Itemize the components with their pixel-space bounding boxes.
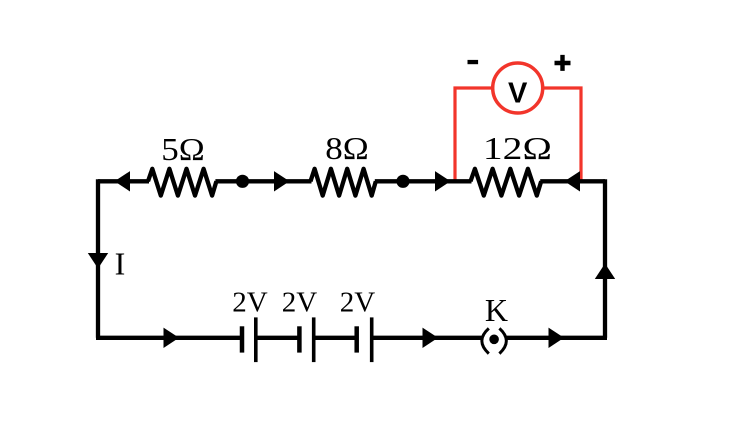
svg-text:2V: 2V [340,287,376,319]
svg-text:V: V [508,78,528,110]
voltmeter negative terminal label - [468,60,479,64]
battery B2 positive plate [312,317,316,362]
battery B1 negative plate [240,326,245,352]
current arrow on left branch pointing down [88,253,108,269]
wire: bottom segment between battery B1 and B2 [256,336,300,340]
wire: bottom segment between battery B2 and B3 [314,336,357,340]
svg-text:I: I [115,246,126,282]
wire: bottom segment from key K to right corner [507,336,608,340]
battery B2 negative plate [297,326,302,352]
current arrow between R1 and R2 pointing right [274,171,290,191]
key K plug symbol dot [489,335,499,345]
battery B3 negative plate [354,326,359,352]
current arrow on bottom-left wire pointing right [164,328,180,348]
current arrow between R2 and R3 pointing right [435,171,451,191]
wire: left vertical branch [96,179,100,338]
wire: top segment between R2 and R3 [375,179,472,183]
svg-text:2V: 2V [282,287,318,319]
junction node between R1 and R2 [236,175,249,188]
key K plug symbol right paren [499,328,506,353]
wire: top segment between R1 and R2 [215,179,311,183]
wire: voltmeter red lead right (node after R3 up to voltmeter) [541,88,581,181]
key K plug symbol left paren [482,328,489,353]
svg-text:12Ω: 12Ω [483,130,552,166]
resistor R2 8-ohm zigzag [311,169,376,196]
current arrow right of R3 pointing left [565,171,581,191]
junction node between R2 and R3 [396,175,409,188]
svg-text:2V: 2V [232,287,268,319]
battery B1 positive plate [254,317,258,362]
resistor R3 12-ohm zigzag [471,169,542,196]
wire: right vertical branch [603,179,607,338]
resistor R1 5-ohm zigzag [148,169,216,196]
current arrow before key K pointing right [423,328,439,348]
current arrow after key K pointing right [549,328,565,348]
svg-text:8Ω: 8Ω [325,130,369,166]
svg-text:K: K [485,292,508,328]
voltmeter positive terminal label + [555,55,571,71]
wire: bottom segment from left corner to battery B1 [96,336,242,340]
svg-text:5Ω: 5Ω [161,131,205,167]
current arrow on top-left wire pointing left [115,171,131,191]
wire: top-right segment [540,179,605,183]
voltmeter V1 body [493,63,543,113]
wire: bottom segment from battery B3 to key K [372,336,483,340]
current arrow on right branch pointing up [595,264,615,280]
battery B3 positive plate [370,317,374,362]
wire: voltmeter red lead left (node between R2 and R3 up to voltmeter) [455,88,494,181]
wire: top-left segment [98,179,149,183]
